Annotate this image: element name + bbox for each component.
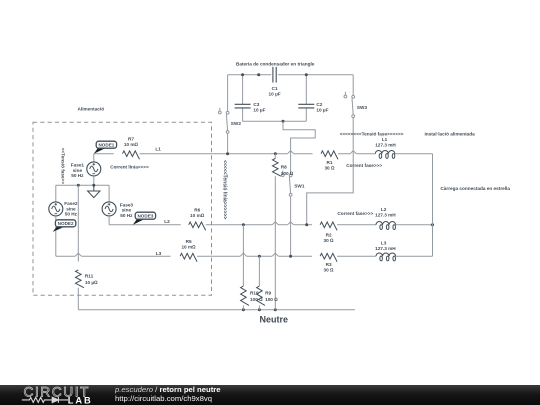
capacitor C3 bbox=[235, 102, 266, 113]
node label NODE2 bbox=[53, 227, 65, 232]
wire R11 to neutral bbox=[77, 288, 79, 310]
wire hop SW1 over L2 bbox=[288, 222, 294, 225]
node label NODE1 bbox=[94, 148, 105, 154]
svg-text:10 mΩ: 10 mΩ bbox=[181, 245, 196, 250]
wire NODE1 junction to Fase1 bbox=[93, 154, 95, 162]
svg-text:SW3: SW3 bbox=[357, 105, 368, 110]
node SW1-L3 junction bbox=[289, 255, 292, 258]
wire L3 right bbox=[396, 255, 433, 257]
svg-text:30 Ω: 30 Ω bbox=[324, 268, 335, 273]
svg-text:100 Ω: 100 Ω bbox=[281, 171, 294, 176]
svg-text:SW1: SW1 bbox=[294, 184, 305, 189]
svg-text:R1: R1 bbox=[327, 160, 333, 165]
svg-text:C2: C2 bbox=[316, 102, 322, 107]
wire L3 to inductor bbox=[337, 255, 376, 257]
svg-text:10 µF: 10 µF bbox=[316, 107, 328, 112]
svg-text:Fase1: Fase1 bbox=[71, 163, 85, 168]
inductor L3 bbox=[375, 241, 396, 261]
svg-text:Bateria de condensador en tria: Bateria de condensador en triangle bbox=[236, 62, 315, 67]
node R10-neutral junction bbox=[242, 308, 245, 311]
wire Fase2 to L3 bbox=[55, 216, 57, 256]
svg-text:127.3 mH: 127.3 mH bbox=[375, 143, 396, 148]
svg-text:R5: R5 bbox=[186, 239, 192, 244]
inductor L2 bbox=[375, 207, 396, 229]
node delta top-C3 junction bbox=[241, 73, 244, 76]
wire hop SW3 over L1 bbox=[350, 151, 356, 154]
switch SW2 bbox=[218, 108, 241, 133]
svg-text:Neutre: Neutre bbox=[260, 315, 289, 325]
wire delta bottom bus bbox=[243, 120, 307, 122]
wire hop SW1 over L1 bbox=[288, 151, 294, 154]
node R10-L2 junction bbox=[242, 223, 245, 226]
wire L2 middle bbox=[206, 224, 312, 226]
wire delta bottom to SW1 step bbox=[283, 121, 315, 174]
svg-text:<<Tensió fase>>: <<Tensió fase>> bbox=[60, 148, 65, 185]
voltage source Fase2 bbox=[49, 201, 78, 217]
wire SW2 column lower bbox=[227, 133, 229, 153]
wire source common bus bbox=[56, 184, 109, 186]
resistor R7 bbox=[123, 137, 140, 160]
svg-text:SW2: SW2 bbox=[231, 121, 242, 126]
svg-text:C1: C1 bbox=[272, 86, 278, 91]
voltage source Fase1 bbox=[71, 162, 101, 178]
svg-text:Fase2: Fase2 bbox=[64, 201, 78, 206]
resistor R10 bbox=[241, 286, 264, 305]
wire L2 to R10 bbox=[242, 225, 244, 286]
svg-text:R11: R11 bbox=[85, 274, 94, 279]
wire R8 to neutral bbox=[274, 176, 276, 310]
node delta top junction bbox=[257, 73, 260, 76]
svg-text:R8: R8 bbox=[281, 164, 287, 169]
wire neutral bus bbox=[78, 309, 355, 311]
svg-text:<<<<<<<<Tensió fase>>>>>>: <<<<<<<<Tensió fase>>>>>> bbox=[340, 132, 404, 137]
wire hop R10 over L3 bbox=[240, 254, 246, 257]
inductor L1 bbox=[375, 137, 396, 158]
wire L1 left bbox=[94, 153, 114, 155]
wire L3 middle bbox=[197, 255, 312, 257]
wire C3 column bbox=[242, 75, 244, 122]
logo resistor-diode symbol bbox=[22, 396, 68, 402]
svg-text:R7: R7 bbox=[128, 137, 134, 142]
svg-text:L2: L2 bbox=[381, 207, 387, 212]
wire hop R11 over L3 bbox=[75, 254, 81, 257]
svg-text:50 Hz: 50 Hz bbox=[120, 213, 133, 218]
svg-text:100 Ω: 100 Ω bbox=[265, 297, 278, 302]
svg-text:Instal·lació alimentada: Instal·lació alimentada bbox=[424, 132, 475, 137]
svg-text:R6: R6 bbox=[194, 208, 200, 213]
svg-text:sine: sine bbox=[122, 208, 132, 213]
svg-text:10 µF: 10 µF bbox=[269, 92, 281, 97]
svg-text:Corrent fase>>>: Corrent fase>>> bbox=[346, 163, 382, 168]
svg-text:Corrent fase>>>: Corrent fase>>> bbox=[337, 211, 373, 216]
svg-text:LAB: LAB bbox=[68, 395, 93, 405]
wire SW3 column upper bbox=[352, 75, 354, 96]
wire L2 right bbox=[396, 224, 433, 226]
wire L1 right bbox=[395, 153, 433, 155]
svg-text:NODE2: NODE2 bbox=[58, 221, 74, 226]
wire L2 left bbox=[109, 224, 181, 226]
wire SW1 to L3 bbox=[290, 196, 292, 256]
svg-text:30 Ω: 30 Ω bbox=[324, 166, 335, 171]
svg-text:R9: R9 bbox=[265, 290, 271, 295]
wire L1 middle bbox=[140, 153, 313, 155]
switch SW1 bbox=[281, 171, 304, 197]
node R8-neutral junction bbox=[274, 308, 277, 311]
resistor R2 bbox=[320, 222, 337, 243]
resistor R8 bbox=[273, 154, 294, 177]
node R11-bus junction bbox=[77, 184, 80, 187]
wire C2 column bbox=[305, 75, 307, 122]
svg-text:sine: sine bbox=[73, 168, 83, 173]
capacitor C1 bbox=[269, 67, 281, 97]
CircuitLab logo bbox=[0, 385, 240, 405]
node R9-L3 junction bbox=[258, 255, 261, 258]
wire bus to Fase3 bbox=[108, 185, 110, 202]
wire R9 to neutral bbox=[258, 305, 260, 309]
wire L1 to inductor bbox=[338, 153, 375, 155]
svg-text:R3: R3 bbox=[326, 262, 332, 267]
svg-text:50 Hz: 50 Hz bbox=[71, 173, 84, 178]
footer title text bbox=[115, 385, 221, 404]
svg-text:<<<<<Tensió línia>>>>>>: <<<<<Tensió línia>>>>>> bbox=[222, 160, 228, 219]
wire L3 to R9 bbox=[258, 256, 260, 286]
resistor R5 bbox=[180, 239, 197, 262]
node delta top-C2 junction bbox=[305, 73, 308, 76]
switch SW3 bbox=[344, 92, 367, 118]
svg-text:Corrent línia>>>>: Corrent línia>>>> bbox=[110, 164, 149, 169]
svg-text:L1: L1 bbox=[382, 137, 388, 142]
svg-text:C3: C3 bbox=[253, 102, 259, 107]
dashed box Alimentacio bbox=[33, 122, 212, 295]
svg-text:10 µΩ: 10 µΩ bbox=[85, 280, 98, 285]
resistor R11 bbox=[76, 270, 99, 288]
resistor R1 bbox=[321, 151, 338, 171]
wire SW2 column upper bbox=[227, 75, 229, 112]
node label NODE3 bbox=[133, 219, 144, 225]
resistor R9 bbox=[257, 286, 279, 305]
svg-text:Càrrega connectada en estrella: Càrrega connectada en estrella bbox=[440, 186, 510, 191]
wire SW3 column lower bbox=[307, 118, 354, 225]
svg-text:30 Ω: 30 Ω bbox=[324, 238, 335, 243]
wire hop R8 over L2 bbox=[272, 222, 278, 225]
node Fase1-bus junction bbox=[92, 184, 95, 187]
node SW3link-L2 junction bbox=[305, 223, 308, 226]
svg-text:L1: L1 bbox=[155, 147, 161, 152]
wire Fase3 to L2 bbox=[108, 216, 110, 225]
svg-text:10 µF: 10 µF bbox=[253, 107, 265, 112]
svg-text:10 mΩ: 10 mΩ bbox=[190, 213, 205, 218]
wire L3 left bbox=[56, 255, 171, 257]
resistor R3 bbox=[320, 253, 337, 272]
node R8-L1 junction bbox=[274, 152, 277, 155]
wire R10 to neutral bbox=[242, 305, 244, 309]
ground bbox=[88, 185, 100, 197]
footer bar bbox=[0, 385, 540, 405]
svg-text:NODE3: NODE3 bbox=[137, 213, 153, 218]
svg-text:127.3 mH: 127.3 mH bbox=[375, 213, 396, 218]
svg-text:L3: L3 bbox=[381, 241, 387, 246]
resistor R6 bbox=[189, 208, 206, 231]
svg-text:Alimentació: Alimentació bbox=[78, 107, 105, 112]
node SW2-L1 junction bbox=[226, 152, 229, 155]
node delta bottom junction bbox=[282, 120, 285, 123]
voltage source Fase3 bbox=[102, 202, 133, 218]
svg-text:50 Hz: 50 Hz bbox=[65, 212, 78, 217]
wire delta top bus bbox=[228, 74, 354, 76]
svg-text:L2: L2 bbox=[164, 219, 170, 224]
svg-text:127.3 mH: 127.3 mH bbox=[375, 246, 396, 251]
wire Fase1 to bus bbox=[93, 176, 95, 185]
wire right wye bus bbox=[432, 154, 434, 257]
svg-text:sine: sine bbox=[66, 206, 76, 211]
capacitor C2 bbox=[298, 102, 328, 113]
node R9-neutral junction bbox=[258, 308, 261, 311]
node L2-right bus junction bbox=[431, 223, 434, 226]
svg-text:NODE1: NODE1 bbox=[98, 142, 114, 147]
svg-text:10 mΩ: 10 mΩ bbox=[124, 142, 139, 147]
wire bus to R11 bbox=[77, 185, 79, 261]
svg-text:R2: R2 bbox=[326, 233, 332, 238]
svg-text:Fase3: Fase3 bbox=[120, 202, 134, 207]
wire hop R8 over L3 bbox=[272, 254, 278, 257]
wire bus to Fase2 bbox=[55, 185, 57, 202]
wire L2 to inductor bbox=[337, 224, 376, 226]
svg-text:L3: L3 bbox=[156, 251, 162, 256]
